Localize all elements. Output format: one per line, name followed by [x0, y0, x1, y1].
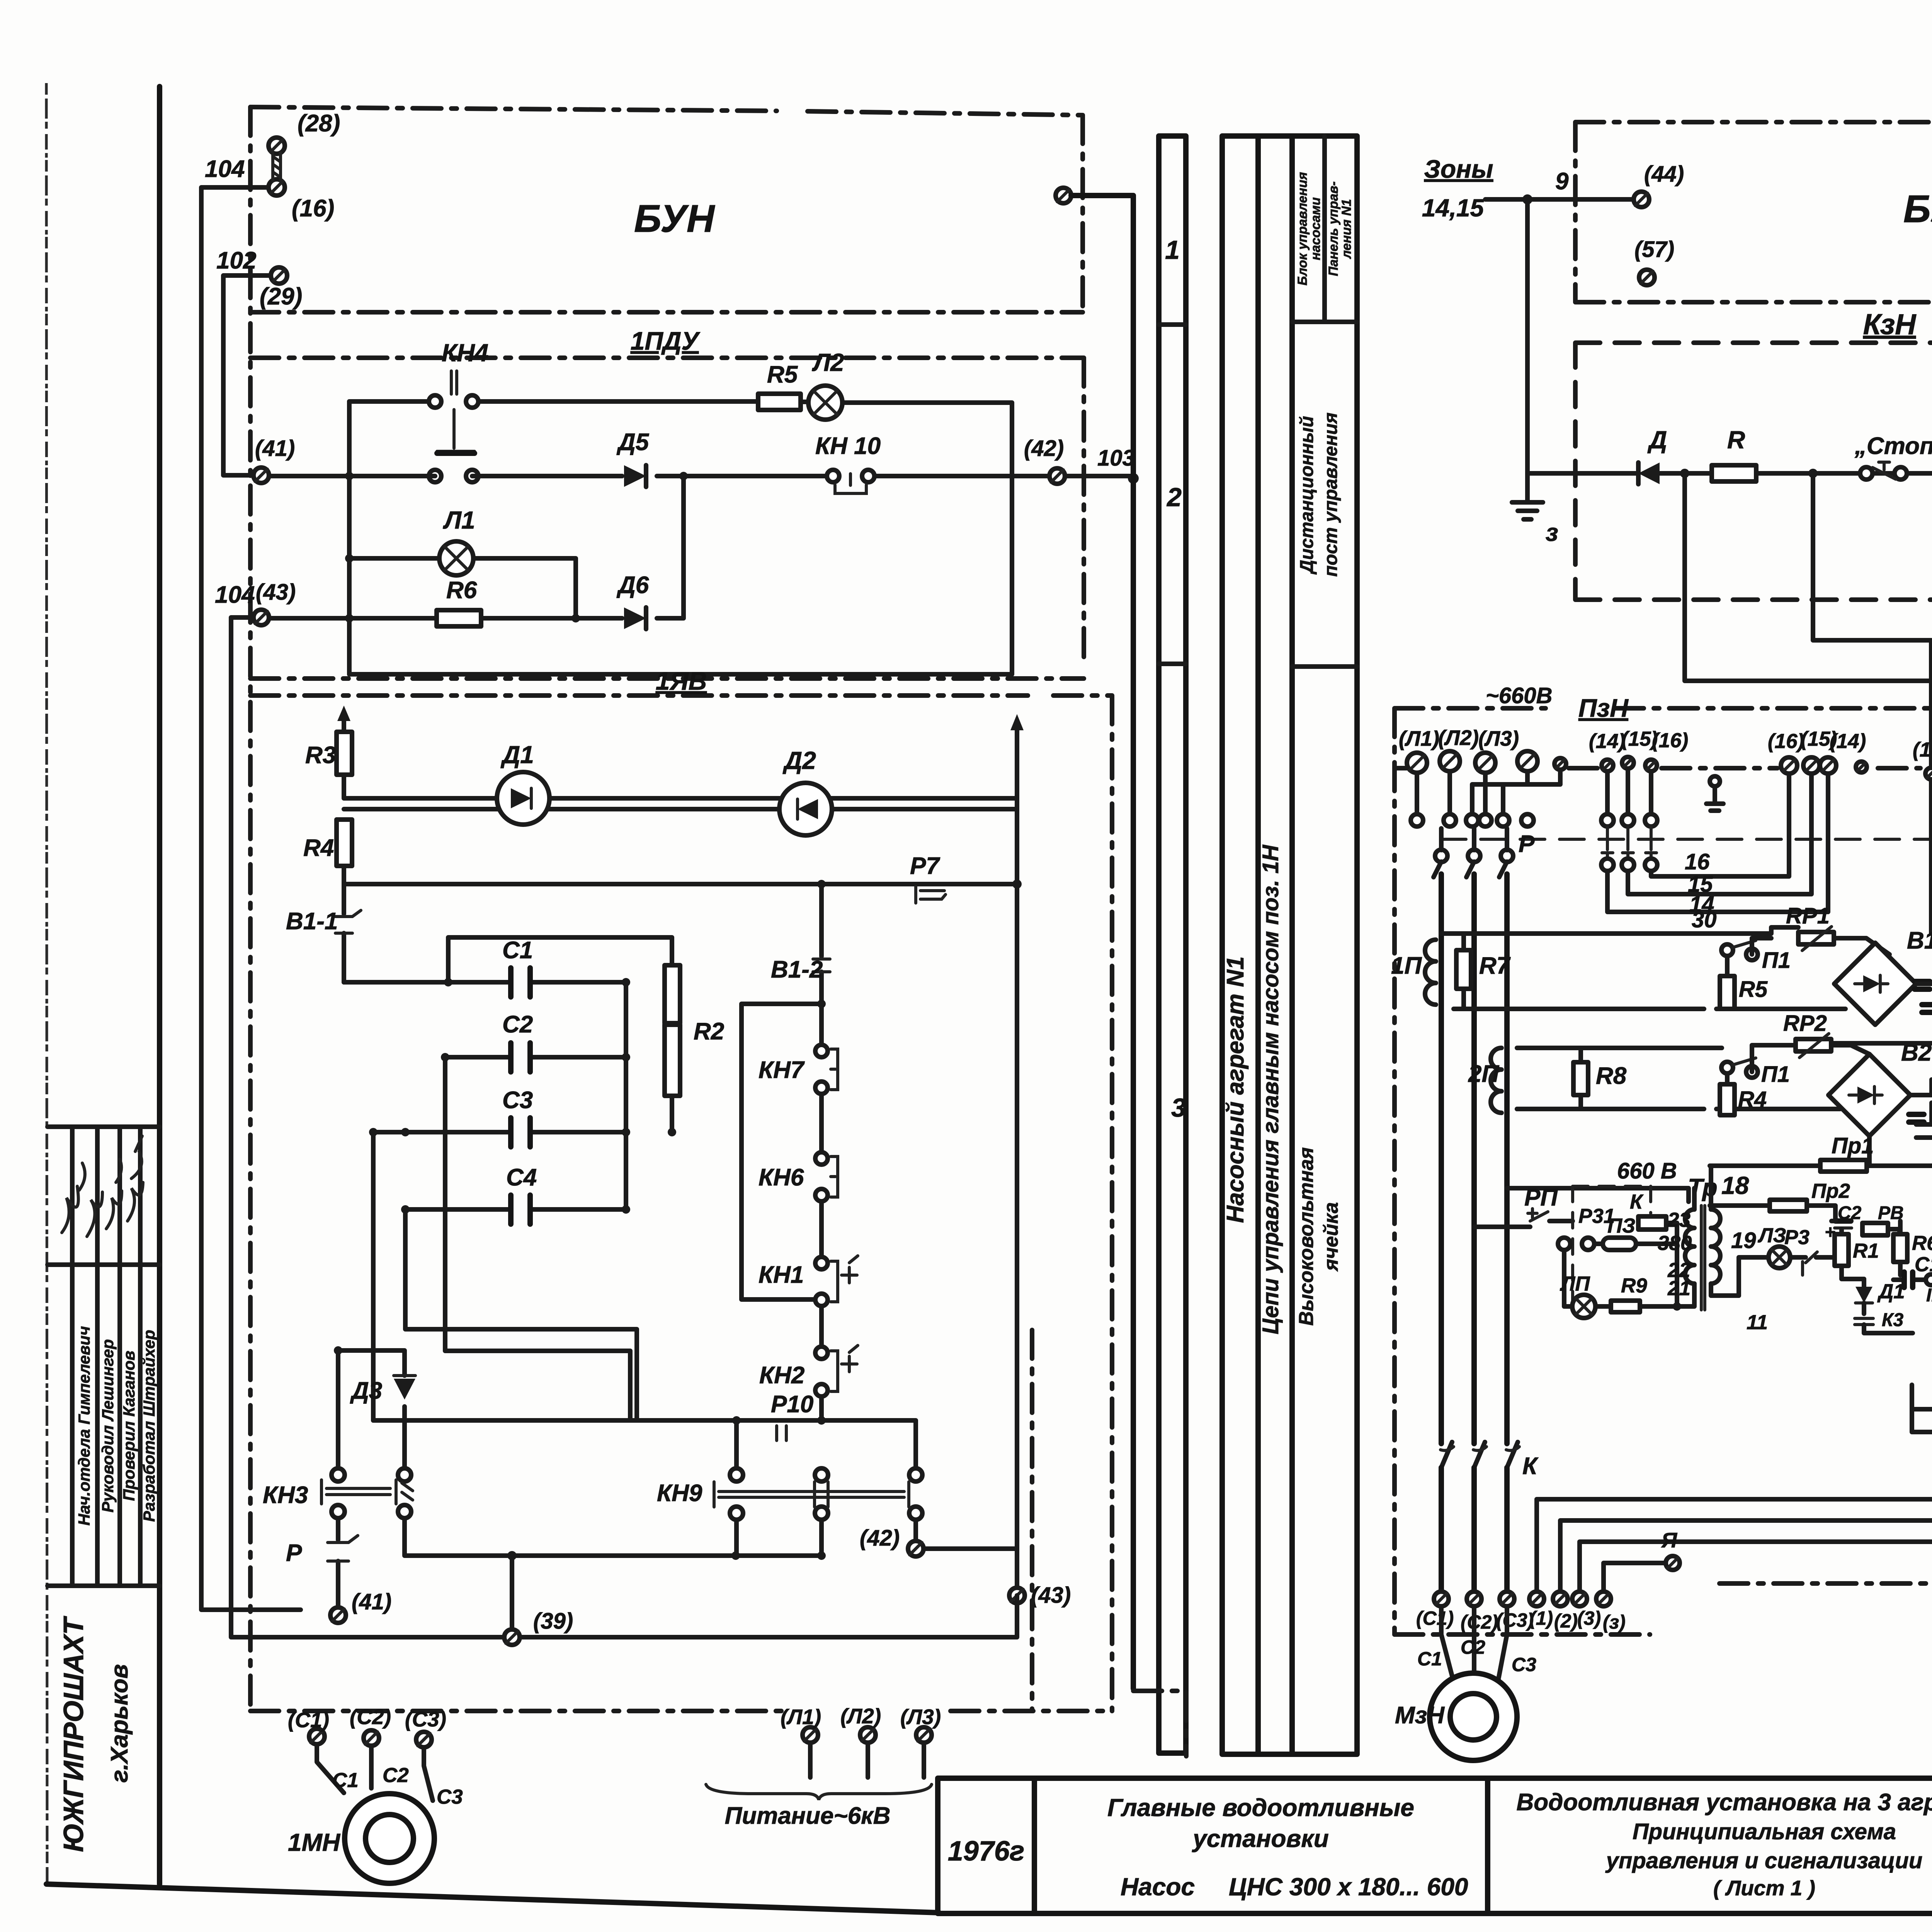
terminal (1) pzn — [1529, 1592, 1553, 1629]
svg-text:ЦНС 300 х 180... 600: ЦНС 300 х 180... 600 — [1229, 1873, 1468, 1901]
relay Р3 plates upper — [1915, 961, 1932, 1012]
title cell installations — [1107, 1794, 1468, 1901]
svg-text:104: 104 — [215, 582, 255, 608]
resistor R3 — [305, 732, 352, 775]
block ПЗН top border — [1395, 708, 1932, 1634]
wire R2 bottom tie — [670, 1096, 674, 1132]
transformer Тр — [1658, 1166, 1768, 1334]
resistor R6 pzn — [1893, 1221, 1932, 1275]
terminal (Л3) pzn — [1475, 726, 1519, 773]
switch П1 lower — [1721, 1045, 1796, 1087]
linkage dashed Р-П1 — [1441, 839, 1932, 1180]
svg-text:пост управления: пост управления — [1321, 413, 1341, 577]
svg-text:г.Харьков: г.Харьков — [106, 1664, 133, 1783]
svg-text:11: 11 — [1747, 1311, 1768, 1334]
capacitor С4 — [506, 1164, 537, 1224]
svg-text:14,15: 14,15 — [1422, 194, 1485, 222]
svg-text:II: II — [1926, 1285, 1932, 1306]
svg-text:(3): (3) — [1577, 1607, 1601, 1629]
wire Л2 to right rail — [349, 403, 1012, 674]
svg-text:С1: С1 — [1417, 1648, 1442, 1670]
wire 102 to (41) — [223, 276, 271, 475]
svg-text:380: 380 — [1658, 1232, 1692, 1255]
wire 1ПДУ left rail — [345, 401, 354, 674]
svg-text:(С1): (С1) — [288, 1708, 329, 1732]
resistor R kzn — [1712, 426, 1756, 481]
title year — [948, 1836, 1025, 1867]
resistor R7 — [1456, 934, 1511, 1009]
svg-text:R5: R5 — [1739, 977, 1768, 1002]
resistor R6 — [437, 577, 481, 626]
boundary dash-dot segment 1ЯВ inner — [1030, 1330, 1034, 1710]
svg-text:(14): (14) — [1589, 730, 1625, 753]
wire зоны to ground — [1525, 199, 1530, 502]
terminal (43) pdu — [215, 580, 296, 625]
terminal unnamed pzn — [1517, 751, 1537, 771]
terminal (С3) pzn — [1496, 1592, 1534, 1631]
svg-text:„Стоп": „Стоп" — [1854, 433, 1932, 459]
wire 1ПДУ top row — [349, 399, 758, 404]
svg-text:Зоны: Зоны — [1424, 155, 1493, 183]
svg-text:(С3): (С3) — [405, 1707, 446, 1731]
relay РВ С2 — [1832, 1203, 1904, 1257]
svg-text:(43): (43) — [256, 580, 296, 605]
dashed relay box Р31 К — [1573, 1186, 1651, 1310]
terminal (15)r — [1801, 728, 1837, 774]
contact Р — [286, 1518, 358, 1602]
switch КН9 three pole — [657, 1420, 922, 1556]
terminal (Л1) pzn — [1399, 726, 1439, 773]
svg-text:R7: R7 — [1479, 952, 1511, 979]
svg-text:КН 10: КН 10 — [815, 433, 881, 459]
svg-text:ЛП: ЛП — [1560, 1272, 1590, 1295]
contact Р3-2 — [1784, 1226, 1832, 1275]
svg-text:Пр1: Пр1 — [1832, 1133, 1874, 1158]
contact Р7 — [910, 853, 946, 903]
block 1ПДУ outline — [250, 358, 1084, 679]
terminal small r — [1856, 762, 1867, 772]
relay Р3 plates lower — [1909, 1080, 1932, 1138]
wire 12 — [1685, 473, 1932, 768]
wire C3 row — [373, 1128, 676, 1136]
stamp signatures — [62, 1136, 143, 1236]
svg-text:(41): (41) — [255, 436, 295, 461]
choke 2П — [1468, 1048, 1502, 1113]
svg-text:С2: С2 — [383, 1764, 409, 1787]
svg-text:R8: R8 — [1596, 1063, 1627, 1089]
dash-dot bottom border pzn — [1395, 1583, 1932, 1634]
block БУН right label — [1903, 187, 1932, 231]
wire КН9 bottom row — [731, 1551, 826, 1560]
contact К3 pzn — [1855, 1310, 1913, 1333]
svg-text:Д2: Д2 — [782, 747, 816, 774]
svg-text:ЛЗ: ЛЗ — [1757, 1224, 1786, 1247]
wire (41) row — [269, 472, 1133, 480]
wire R5-Л2 — [801, 400, 808, 404]
svg-text:(16): (16) — [1768, 730, 1804, 753]
wire R3 to Д1 row — [344, 775, 1017, 809]
wire Р10 row — [373, 1391, 916, 1468]
svg-text:R5: R5 — [767, 361, 798, 388]
fuse Пр2 — [1710, 1180, 1850, 1221]
svg-text:660 В: 660 В — [1617, 1158, 1677, 1184]
svg-text:К: К — [1522, 1453, 1539, 1480]
svg-text:Д1: Д1 — [500, 741, 534, 769]
svg-text:Водоотливная установка на 3: Водоотливная установка на 3 агрегата — [1517, 1789, 1932, 1816]
resistor R5 pzn — [1720, 976, 1768, 1009]
terminal (43) jav — [1009, 1583, 1071, 1608]
svg-text:Р10: Р10 — [771, 1391, 813, 1418]
svg-text:(С2): (С2) — [1461, 1611, 1498, 1633]
svg-text:Д3: Д3 — [350, 1378, 382, 1404]
svg-text:В1-2: В1-2 — [771, 956, 823, 983]
capacitor С2 — [502, 1011, 533, 1072]
title block frame — [938, 1778, 1932, 1913]
fuse ПЗ — [1558, 1214, 1677, 1250]
block 1ПДУ label — [631, 327, 701, 355]
svg-text:16: 16 — [1685, 849, 1710, 874]
contact РП — [1474, 1184, 1573, 1227]
svg-text:РП: РП — [1524, 1184, 1558, 1211]
питание 6кВ brace — [706, 1784, 932, 1800]
resistor R4 pzn — [1720, 1084, 1767, 1115]
pushbutton КН4 — [429, 339, 488, 482]
wire C4 row — [405, 1205, 630, 1214]
terminal (Л3) jav — [900, 1705, 941, 1743]
contact pads row — [1411, 814, 1534, 827]
block 1ЯВ label — [656, 667, 707, 695]
block КЗН outline — [1575, 343, 1932, 600]
stamp table — [48, 1127, 160, 1586]
svg-text:В1-1: В1-1 — [286, 908, 338, 935]
ground stub top — [1706, 776, 1723, 811]
terminal (Л2) pzn — [1438, 726, 1479, 771]
svg-text:(42): (42) — [860, 1526, 900, 1551]
svg-text:R3: R3 — [305, 742, 336, 769]
block КЗН label — [1863, 308, 1917, 340]
wire 101/104 from (16) — [201, 156, 301, 1610]
svg-text:RP2: RP2 — [1783, 1011, 1827, 1036]
wire 103 bus — [1071, 196, 1133, 1689]
svg-text:Я: Я — [1661, 1528, 1678, 1552]
terminal (С2) pzn — [1461, 1592, 1498, 1633]
wires to motor МЗН — [1441, 1606, 1507, 1679]
svg-text:управления и сигнализации: управления и сигнализации — [1605, 1848, 1923, 1873]
svg-text:3: 3 — [1171, 1093, 1186, 1122]
svg-text:Д1: Д1 — [1877, 1280, 1905, 1303]
terminal (57) — [1634, 237, 1674, 285]
svg-text:R4: R4 — [303, 835, 334, 861]
svg-text:(42): (42) — [1024, 436, 1064, 461]
ground symbol КЗН — [1512, 502, 1558, 546]
arrow up left rail — [337, 706, 350, 732]
питание 6кВ stubs — [810, 1741, 924, 1777]
svg-text:R2: R2 — [694, 1018, 724, 1045]
svg-text:П1: П1 — [1761, 1062, 1790, 1087]
motor МЗН — [1395, 1636, 1536, 1760]
svg-text:Насосный агрегат N1: Насосный агрегат N1 — [1222, 956, 1249, 1223]
rheostat RP2 — [1783, 1011, 1869, 1058]
wire 2П row — [1517, 1048, 1840, 1109]
wire C1 upper loop to R2 — [448, 937, 672, 982]
svg-text:К: К — [1630, 1190, 1644, 1213]
diode Д — [1638, 426, 1667, 484]
stamp titles column 2 — [99, 1339, 117, 1513]
block БУН left border — [248, 107, 253, 1712]
terminal small pzn — [1554, 758, 1566, 770]
terminal (16) — [1645, 729, 1688, 771]
svg-text:Р7: Р7 — [910, 853, 940, 879]
aux contacts 14 15 16 — [1601, 769, 1657, 871]
svg-text:С1: С1 — [332, 1769, 359, 1792]
page margin ragged line — [46, 83, 47, 1884]
svg-text:Д5: Д5 — [616, 429, 650, 456]
svg-text:С1: С1 — [502, 937, 533, 964]
wire В2 outputs — [1831, 1043, 1932, 1166]
organization name — [58, 1616, 133, 1852]
svg-text:Главные водоотливные: Главные водоотливные — [1107, 1794, 1414, 1821]
rheostat RP1 — [1786, 903, 1889, 954]
svg-text:Д6: Д6 — [616, 572, 649, 599]
svg-text:2П: 2П — [1468, 1061, 1499, 1087]
svg-text:(Л2): (Л2) — [840, 1704, 881, 1728]
stamp titles column 1 — [75, 1326, 93, 1526]
block ПЗН label — [1578, 694, 1629, 722]
svg-text:Цепи управления главным нас: Цепи управления главным насосом поз. 1Н — [1258, 845, 1283, 1335]
wire C2 row — [445, 982, 630, 1209]
terminal (С1) pzn — [1416, 1592, 1454, 1629]
terminal БУН right top — [1056, 188, 1071, 203]
svg-text:(Л1): (Л1) — [1399, 726, 1439, 750]
terminal (з) pzn — [1596, 1592, 1626, 1633]
terminal (С3) jav — [405, 1707, 446, 1747]
diode Д1 pzn — [1855, 1279, 1905, 1314]
block БУН outline — [250, 107, 1083, 315]
wire pzn top distribution — [1417, 770, 1560, 814]
svg-text:30: 30 — [1692, 907, 1717, 932]
svg-text:Руководил Лешингер: Руководил Лешингер — [99, 1339, 117, 1513]
svg-text:КН7: КН7 — [759, 1057, 805, 1083]
svg-text:ПзН: ПзН — [1578, 694, 1629, 722]
svg-text:С3: С3 — [437, 1786, 463, 1808]
svg-text:1ЯВ: 1ЯВ — [656, 667, 707, 695]
svg-text:(44): (44) — [1644, 162, 1684, 187]
terminal (Л2) jav — [840, 1704, 881, 1743]
svg-text:18: 18 — [1721, 1172, 1749, 1199]
svg-text:(10): (10) — [1913, 738, 1932, 761]
svg-text:КН4: КН4 — [442, 339, 488, 367]
svg-text:з: з — [1546, 519, 1558, 546]
phase buses — [1441, 874, 1507, 1444]
wire Р7 row — [344, 866, 1017, 888]
svg-text:RP1: RP1 — [1786, 903, 1830, 929]
bridge В1 — [1834, 927, 1932, 1025]
resistor R2 — [665, 965, 724, 1096]
svg-text:(57): (57) — [1634, 237, 1674, 262]
svg-text:Р: Р — [1519, 831, 1535, 857]
coil К — [1638, 1216, 1677, 1256]
wire C1 row — [344, 978, 630, 986]
wire bypass loop — [742, 1004, 821, 1299]
svg-text:R: R — [1727, 426, 1745, 454]
label Зоны 14,15 left — [1422, 155, 1493, 222]
wire right rail with arrow — [1010, 714, 1024, 1635]
frame bottom border — [46, 1884, 1932, 1913]
wire 9 — [1485, 168, 1634, 204]
svg-text:R1: R1 — [1853, 1240, 1879, 1262]
svg-text:23: 23 — [1667, 1209, 1690, 1231]
wire (39) drop — [510, 1556, 514, 1629]
svg-text:С3: С3 — [1512, 1654, 1536, 1675]
choke 1П — [1391, 940, 1436, 1005]
svg-text:БУН: БУН — [1903, 187, 1932, 231]
switch В1-1 — [286, 884, 361, 982]
title cell scheme name — [1517, 1789, 1932, 1900]
svg-text:Панель управ-: Панель управ- — [1326, 181, 1341, 276]
terminal (39) — [504, 1609, 573, 1645]
svg-text:С3: С3 — [502, 1087, 533, 1114]
block БУН label — [634, 197, 715, 240]
diode lamp Д2 — [779, 747, 832, 835]
svg-text:КН9: КН9 — [657, 1480, 702, 1507]
svg-text:КН1: КН1 — [759, 1262, 804, 1288]
svg-text:КН3: КН3 — [263, 1482, 308, 1509]
wire В1-2 column — [771, 884, 830, 1044]
svg-text:1ПДУ: 1ПДУ — [631, 327, 701, 355]
svg-text:Высоковольтная: Высоковольтная — [1295, 1147, 1318, 1326]
svg-text:Блок управления: Блок управления — [1295, 172, 1310, 285]
svg-text:ЮЖГИПРОШАХТ: ЮЖГИПРОШАХТ — [58, 1616, 89, 1852]
starter block border — [1395, 768, 1932, 1583]
terminal (29) — [216, 247, 302, 310]
diode lamp Д1 — [497, 741, 549, 825]
svg-text:(14): (14) — [1830, 730, 1866, 753]
terminal (15) — [1621, 728, 1658, 769]
svg-text:С2: С2 — [502, 1011, 533, 1038]
svg-text:Л2: Л2 — [812, 349, 844, 376]
terminal (42) pdu — [1024, 436, 1065, 484]
pushbutton КН6 — [759, 1152, 838, 1257]
resistor R8 — [1517, 1048, 1627, 1109]
column bar pump unit — [1222, 136, 1357, 1754]
wire 30 row — [1441, 907, 1798, 934]
block БУН right outline — [1575, 122, 1932, 302]
svg-text:1П: 1П — [1391, 952, 1422, 979]
pushbutton КН10 — [815, 433, 881, 493]
svg-text:Л1: Л1 — [443, 506, 475, 534]
svg-text:1МН: 1МН — [288, 1828, 341, 1856]
wire 11 — [1813, 473, 1932, 768]
terminal (16)r — [1768, 730, 1804, 774]
svg-text:насосами: насосами — [1308, 197, 1323, 260]
svg-text:102: 102 — [216, 247, 256, 274]
label 660В — [1507, 1158, 1689, 1202]
svg-text:Р: Р — [286, 1540, 302, 1566]
frame left border — [157, 87, 162, 1884]
terminal (41) bottom — [330, 1589, 391, 1623]
lamp Л2 — [808, 349, 844, 420]
pushbutton КН1 — [759, 1256, 858, 1347]
diode Д6 — [616, 572, 649, 629]
lamp Л1 — [349, 506, 576, 618]
svg-text:С4: С4 — [506, 1164, 537, 1191]
svg-text:Проверил Каганов: Проверил Каганов — [120, 1350, 138, 1501]
svg-text:(С3): (С3) — [1496, 1609, 1534, 1631]
dash-dot step at bus bottom — [1133, 1691, 1186, 1756]
terminal (14) — [1589, 730, 1625, 771]
lamp ЛЗ — [1739, 1224, 1790, 1296]
svg-text:(Л3): (Л3) — [900, 1705, 941, 1729]
svg-text:К3: К3 — [1882, 1310, 1904, 1330]
bridge В2 — [1828, 1039, 1932, 1136]
terminal Я pzn bottom — [1661, 1528, 1680, 1570]
svg-text:Нач.отдела Гимпелевич: Нач.отдела Гимпелевич — [75, 1326, 93, 1526]
svg-text:Дистанционный: Дистанционный — [1297, 416, 1317, 575]
питание 6кВ label — [725, 1803, 891, 1829]
wire 39 long row — [231, 617, 1017, 1637]
capacitor С1 — [502, 937, 533, 997]
resistor R5 — [758, 361, 801, 410]
svg-text:Разработал Штрайхер: Разработал Штрайхер — [140, 1330, 158, 1522]
capacitor С1 pzn — [1893, 1253, 1932, 1306]
svg-text:установки: установки — [1192, 1825, 1329, 1852]
svg-text:103: 103 — [1097, 446, 1135, 471]
svg-text:R4: R4 — [1738, 1087, 1767, 1112]
block 1ЯВ outline — [250, 696, 1112, 1711]
node 103 — [1097, 446, 1139, 484]
stamp titles column 3 — [120, 1350, 138, 1501]
fuse Пр1 — [1710, 1133, 1932, 1172]
contactor Р main contacts — [1434, 828, 1535, 877]
wire sense row lower — [1454, 1007, 1845, 1011]
svg-text:КН2: КН2 — [759, 1362, 804, 1389]
svg-text:КзН: КзН — [1863, 308, 1917, 340]
pushbutton КН3 — [263, 1468, 413, 1518]
svg-text:R6: R6 — [1912, 1232, 1932, 1255]
svg-text:(з): (з) — [1603, 1611, 1626, 1633]
svg-text:Насос: Насос — [1121, 1873, 1195, 1901]
svg-text:(С2): (С2) — [350, 1705, 391, 1729]
svg-text:ления N1: ления N1 — [1339, 199, 1354, 259]
svg-text:21: 21 — [1667, 1277, 1690, 1300]
wire проверка box bottom — [1912, 1388, 1932, 1432]
svg-text:(16): (16) — [292, 195, 334, 222]
svg-text:В1: В1 — [1907, 927, 1932, 954]
svg-text:( Лист 1 ): ( Лист 1 ) — [1713, 1876, 1815, 1900]
pushbutton проверка БРУ — [1912, 1385, 1932, 1415]
svg-text:БУН: БУН — [634, 197, 715, 240]
svg-text:Пр2: Пр2 — [1811, 1180, 1850, 1202]
svg-text:R6: R6 — [446, 577, 477, 604]
svg-text:1976г: 1976г — [948, 1836, 1025, 1867]
svg-text:104: 104 — [205, 156, 245, 182]
terminal (С2) jav — [350, 1705, 391, 1746]
contactor К main contacts — [1440, 1442, 1539, 1591]
svg-text:Принципиальная схема: Принципиальная схема — [1633, 1819, 1896, 1844]
terminal (2) pzn — [1553, 1592, 1578, 1632]
lamp ЛП — [1560, 1250, 1595, 1318]
svg-text:19: 19 — [1731, 1228, 1756, 1253]
contact Стоп — [1854, 433, 1932, 480]
svg-text:~660В: ~660В — [1486, 683, 1553, 708]
terminal (44) — [1634, 162, 1684, 207]
svg-text:+: + — [1825, 1222, 1835, 1243]
svg-text:(Л3): (Л3) — [1478, 726, 1519, 750]
diode Д5 — [616, 429, 650, 487]
svg-text:(39): (39) — [533, 1609, 573, 1634]
svg-text:2: 2 — [1166, 483, 1182, 512]
wires 16 15 14 cross — [1607, 774, 1828, 917]
